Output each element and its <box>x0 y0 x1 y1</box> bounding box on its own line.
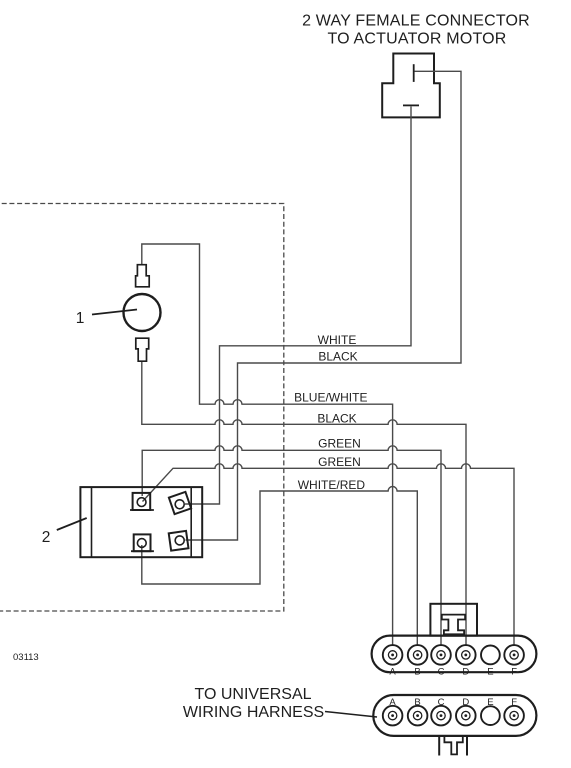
P2 pin letters A-F <box>389 697 517 708</box>
P1 latch tab <box>430 604 477 636</box>
svg-text:E: E <box>487 667 493 678</box>
solenoid S1 (component 2) body <box>80 487 202 557</box>
svg-text:BLACK: BLACK <box>318 350 357 364</box>
connector P2 6-way (to harness) pill body <box>373 695 536 736</box>
svg-text:TO UNIVERSAL: TO UNIVERSAL <box>194 686 311 703</box>
P1 latch I-beam <box>442 615 465 635</box>
solenoid terminal bottom-left square <box>134 534 151 551</box>
svg-text:WHITE/RED: WHITE/RED <box>298 478 366 492</box>
P1 pin A <box>383 645 403 665</box>
svg-text:2: 2 <box>42 529 51 546</box>
J1 pin 1 (top pin) <box>413 64 415 82</box>
P1 pin C <box>431 645 451 665</box>
P1 pin letters A-F <box>389 667 517 678</box>
solenoid terminal top-left square <box>133 493 151 510</box>
wire WHITE from J1 pin2 to solenoid top-right terminal <box>185 107 411 505</box>
P2 bottom tab left line <box>438 736 440 756</box>
wire BLACK from motor bottom plug to connector pin D <box>142 361 466 645</box>
svg-text:2 WAY FEMALE CONNECTOR: 2 WAY FEMALE CONNECTOR <box>302 13 530 30</box>
connector J1 2-way female outline <box>382 54 440 118</box>
P2 pin A <box>383 706 403 726</box>
wire BLACK from J1 pin1 to motor terminal (via right riser) <box>186 71 462 540</box>
svg-text:GREEN: GREEN <box>318 437 361 451</box>
P2 pin F <box>504 706 524 726</box>
svg-text:03113: 03113 <box>13 652 39 663</box>
motor M1 top plug terminal <box>136 265 150 287</box>
P2 pin D <box>456 706 476 726</box>
svg-text:D: D <box>462 667 469 678</box>
svg-text:BLUE/WHITE: BLUE/WHITE <box>294 390 367 404</box>
svg-text:BLACK: BLACK <box>317 412 356 426</box>
P2 pin C <box>431 706 451 726</box>
svg-text:WIRING HARNESS: WIRING HARNESS <box>183 704 324 721</box>
solenoid left inner wall <box>91 487 93 557</box>
solenoid terminal top-right rotated square <box>169 492 191 514</box>
solenoid right inner wall <box>190 487 192 557</box>
svg-text:TO ACTUATOR MOTOR: TO ACTUATOR MOTOR <box>327 30 506 47</box>
motor M1 (component 1) circle <box>124 294 161 331</box>
P2 bottom tab right line <box>466 736 468 756</box>
svg-text:F: F <box>511 667 517 678</box>
P1 pin D <box>456 645 476 665</box>
P1 pin F <box>504 645 524 665</box>
svg-text:GREEN: GREEN <box>318 455 361 469</box>
enclosure dashed box <box>0 204 284 612</box>
svg-text:1: 1 <box>76 310 85 327</box>
wire GREEN from solenoid top-left terminal to connector pin F <box>143 464 515 645</box>
P2 pin E (empty) <box>481 706 500 725</box>
harness label text <box>183 686 324 721</box>
P2 pin B <box>408 706 428 726</box>
P2 bottom T latch <box>444 736 462 754</box>
label 2 leader line <box>57 518 87 530</box>
svg-text:WHITE: WHITE <box>318 333 357 347</box>
label 1 leader line <box>92 310 137 315</box>
title text <box>302 13 530 48</box>
solenoid terminal bottom-right rotated square <box>169 531 189 551</box>
P1 pin E (empty) <box>481 646 500 665</box>
svg-text:B: B <box>414 667 420 678</box>
harness label leader line <box>325 712 377 718</box>
wire BLUE/WHITE from motor top plug to connector pin A <box>142 244 393 645</box>
svg-text:C: C <box>438 667 445 678</box>
connector P1 6-way (to actuator side) pill body <box>372 636 537 673</box>
wire WHITE/RED from solenoid bottom-left terminal to connector pin B <box>142 487 418 646</box>
P1 pin B <box>408 645 428 665</box>
motor M1 bottom plug terminal <box>136 338 149 361</box>
J1 pin 2 (bottom pin) <box>403 104 419 106</box>
svg-text:A: A <box>389 667 396 678</box>
wire GREEN from solenoid top-left terminal to connector pin C <box>142 446 441 645</box>
